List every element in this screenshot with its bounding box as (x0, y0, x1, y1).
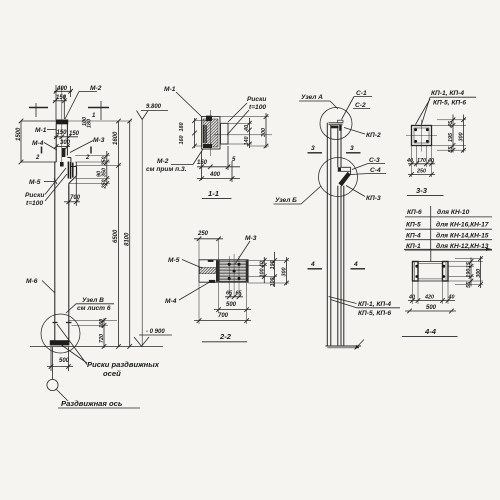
label M-5 detail 2-2 (168, 257, 202, 268)
SECTION-22 (165, 231, 289, 342)
svg-text:М-2: М-2 (90, 85, 102, 92)
labels KP-1 KP-4 KP-5 KP-6 top right (416, 90, 477, 125)
SECTION-44 (402, 248, 492, 337)
dimension 150 top (53, 95, 67, 119)
svg-text:3-3: 3-3 (416, 186, 428, 195)
column base plate (50, 340, 70, 345)
riska marks on shaft (53, 322, 72, 324)
svg-text:С-4: С-4 (370, 167, 381, 174)
svg-text:250: 250 (102, 180, 108, 190)
dim 700 bottom 2-2 (194, 283, 251, 324)
svg-text:КП-1, КП-4: КП-1, КП-4 (431, 90, 464, 97)
side view column walls (327, 123, 344, 346)
svg-text:С-2: С-2 (355, 102, 366, 109)
console bracket side view (338, 167, 351, 186)
svg-text:300: 300 (282, 268, 288, 277)
svg-text:6500: 6500 (113, 229, 119, 243)
svg-text:250: 250 (102, 157, 108, 167)
dimension 700 console (64, 162, 81, 206)
SECTION-SIDEVIEW (274, 90, 401, 350)
table of KP marks (405, 206, 492, 251)
dim 150 5 bottom (197, 146, 240, 180)
detail 4-4 bolts (415, 265, 445, 278)
section mark 2 right (85, 147, 91, 162)
svg-text:1-1: 1-1 (208, 189, 219, 198)
label riski t=100 (227, 96, 266, 135)
svg-text:100: 100 (270, 278, 276, 287)
label M-3 detail 2-2 (235, 235, 257, 264)
svg-text:осей: осей (103, 369, 121, 378)
svg-text:КП-2: КП-2 (366, 132, 381, 139)
svg-text:Узел Б: Узел Б (275, 197, 297, 204)
axis cross 1 (29, 103, 48, 117)
svg-text:2: 2 (85, 155, 90, 161)
label uzel A (299, 94, 338, 109)
svg-text:250: 250 (197, 231, 209, 237)
svg-text:300: 300 (459, 133, 465, 142)
svg-text:для КН-16,КН-17: для КН-16,КН-17 (436, 221, 489, 229)
weld mark left of console (60, 162, 64, 167)
svg-text:для КН-10: для КН-10 (437, 208, 470, 216)
SECTION-33 (405, 90, 492, 251)
svg-text:КП-1, КП-4: КП-1, КП-4 (358, 301, 391, 308)
dim 500 bottom 2-2 (214, 283, 251, 313)
svg-text:90: 90 (97, 171, 103, 177)
title 4-4 (402, 327, 458, 337)
svg-text:КП-5: КП-5 (406, 222, 421, 229)
svg-text:190: 190 (270, 261, 276, 270)
leader line to detail 4-4 (404, 248, 492, 262)
right dims 45 195 55 300 (432, 115, 467, 153)
bolts detail 2-2 (228, 263, 241, 280)
svg-text:8100: 8100 (125, 232, 131, 246)
svg-text:150: 150 (69, 131, 80, 137)
svg-text:700: 700 (70, 195, 81, 201)
detail 1-1 horizontal centerline (214, 134, 272, 136)
svg-text:Риски: Риски (25, 192, 44, 199)
dim 250 above 2-2 (194, 231, 223, 260)
label M-2 top (65, 85, 102, 119)
svg-text:С-3: С-3 (369, 157, 380, 164)
svg-text:180: 180 (179, 123, 185, 132)
svg-text:40: 40 (244, 125, 250, 132)
svg-text:М-4: М-4 (32, 140, 44, 147)
right dims 15 190 55 300 (448, 256, 483, 288)
svg-text:40: 40 (448, 295, 455, 301)
razbivochnaya axis circle (47, 379, 58, 390)
detail 3-3 bolts (414, 128, 428, 142)
svg-text:700: 700 (218, 313, 229, 319)
svg-text:40: 40 (260, 261, 266, 268)
detail 3-3 square (412, 126, 432, 146)
svg-text:170: 170 (417, 158, 426, 164)
label M-4 (32, 140, 65, 157)
dimension 150 150 on cap (54, 130, 80, 139)
column top cap plate (56, 120, 68, 125)
svg-text:100: 100 (260, 269, 266, 278)
dimension 1500 left (16, 119, 56, 165)
svg-text:140: 140 (244, 137, 250, 146)
dim line 1600-6500 (113, 119, 121, 349)
svg-text:190: 190 (466, 269, 472, 278)
label M-4 detail 2-2 (165, 282, 210, 305)
svg-text:для КН-12,КН-13: для КН-12,КН-13 (436, 242, 489, 250)
labels KP-1 KP-4 KP-5 KP-6 (329, 297, 401, 318)
svg-text:Узел В: Узел В (82, 297, 104, 304)
svg-text:300: 300 (261, 128, 267, 137)
svg-text:160: 160 (179, 136, 185, 145)
detail 1-1 body (202, 116, 220, 149)
dims 40 140 right (228, 118, 252, 148)
column lower shaft (55, 162, 69, 341)
svg-text:180: 180 (99, 319, 105, 328)
label razdvizhnaya os (57, 390, 141, 409)
svg-text:300: 300 (476, 269, 482, 278)
side view base (326, 340, 365, 350)
label uzel V (66, 297, 114, 313)
svg-text:9.800: 9.800 (146, 104, 162, 110)
svg-text:Риски раздвижных: Риски раздвижных (87, 360, 160, 369)
rotated dims 250 350 90 console (69, 151, 110, 190)
dim 400 bottom (197, 161, 240, 182)
svg-text:4: 4 (310, 261, 315, 268)
SECTION-11 (146, 86, 272, 198)
label M-1 detail 1-1 (164, 86, 202, 117)
dimension 300 (54, 140, 71, 149)
axis line to circle (52, 347, 54, 380)
svg-text:180: 180 (87, 119, 93, 128)
label KP-2 (344, 128, 381, 140)
label M-3 (70, 137, 105, 153)
section marks 3 (308, 145, 361, 153)
label KP-3 (346, 186, 381, 203)
svg-text:М-5: М-5 (29, 179, 41, 186)
svg-text:720: 720 (99, 334, 105, 343)
svg-text:400: 400 (209, 172, 221, 178)
svg-text:55: 55 (466, 281, 472, 288)
detail 2-2 body (199, 260, 248, 283)
svg-text:3: 3 (311, 145, 315, 152)
side view top cap (329, 120, 344, 131)
svg-text:2-2: 2-2 (219, 332, 232, 341)
ground base line (30, 346, 163, 348)
svg-text:40: 40 (406, 158, 413, 164)
svg-text:t=100: t=100 (249, 104, 266, 111)
column axis line (61, 87, 63, 163)
axis cross 2 (88, 101, 109, 120)
svg-text:Раздвижная ось: Раздвижная ось (61, 399, 123, 408)
svg-text:4: 4 (353, 261, 358, 268)
label M-6 (26, 278, 55, 293)
svg-text:250: 250 (416, 169, 426, 175)
svg-text:С-1: С-1 (356, 90, 367, 97)
svg-text:500: 500 (426, 305, 437, 311)
dim 65 65 (225, 291, 243, 300)
svg-text:195: 195 (448, 132, 454, 142)
column upper shaft (56, 124, 67, 162)
svg-text:55: 55 (448, 146, 454, 153)
svg-text:- 0 900: - 0 900 (146, 329, 165, 335)
extension line top (68, 120, 132, 122)
svg-text:КП-5, КП-6: КП-5, КП-6 (433, 100, 466, 107)
right dims 40 100 190 300 (248, 252, 289, 287)
detail 1-1 centerline (209, 110, 211, 156)
title 1-1 (202, 189, 232, 198)
svg-text:4-4: 4-4 (424, 327, 437, 336)
svg-text:Риски: Риски (247, 96, 266, 103)
svg-text:1: 1 (92, 113, 96, 119)
bolt centerlines (229, 254, 239, 297)
label M-2 see note (146, 149, 203, 173)
circle uzel A (320, 108, 352, 140)
svg-text:15: 15 (466, 261, 472, 268)
elevation mark -0.900 (134, 329, 172, 346)
svg-text:65: 65 (226, 291, 233, 297)
SECTION-ELEVATION (16, 85, 172, 408)
dim line 8100 (125, 119, 133, 349)
bottom dims 40 170 40 250 (406, 146, 435, 178)
title 2-2 (202, 332, 247, 342)
bottom dims 40 420 40 500 (405, 281, 456, 313)
svg-text:500: 500 (59, 358, 70, 364)
console with riska hatching (67, 158, 76, 184)
svg-text:t=100: t=100 (26, 200, 43, 207)
dimension 400 top (54, 85, 73, 120)
svg-text:40: 40 (408, 295, 415, 301)
detail 4-4 body (413, 262, 449, 282)
svg-text:65: 65 (236, 291, 243, 297)
svg-text:М-5: М-5 (168, 257, 180, 264)
elevation reference line (141, 120, 143, 347)
svg-text:М-3: М-3 (93, 137, 105, 144)
svg-text:420: 420 (424, 295, 434, 301)
dim 300 right (220, 113, 269, 148)
svg-text:150: 150 (197, 160, 208, 166)
svg-text:М-4: М-4 (165, 298, 177, 305)
dims 180 720 right of base (69, 318, 117, 349)
svg-text:для КН-14,КН-15: для КН-14,КН-15 (436, 232, 489, 240)
svg-text:3: 3 (350, 145, 354, 152)
svg-text:5: 5 (232, 157, 236, 163)
rotated dims 100 180 near top (82, 117, 93, 128)
svg-text:КП-4: КП-4 (406, 233, 421, 240)
svg-text:см лист 6: см лист 6 (77, 305, 111, 312)
console riska strokes (68, 162, 72, 179)
svg-text:М-2: М-2 (157, 158, 169, 165)
svg-text:Узел А: Узел А (301, 94, 323, 101)
svg-text:М-3: М-3 (245, 235, 257, 242)
svg-text:М-6: М-6 (26, 278, 38, 285)
svg-text:КП-3: КП-3 (366, 195, 381, 202)
label Riski l=100 (25, 168, 67, 207)
dims 180 160 left (179, 118, 206, 148)
dimension 500 base (47, 347, 73, 371)
svg-text:М-1: М-1 (35, 127, 47, 134)
label M-5 (29, 179, 57, 187)
label uzel B (274, 186, 322, 204)
svg-text:500: 500 (226, 302, 237, 308)
labels C-1 C-2 (342, 90, 373, 120)
section marks 4 (308, 261, 366, 269)
extension line console (75, 164, 121, 166)
circle uzel B (319, 158, 358, 197)
title 3-3 (407, 186, 444, 195)
svg-text:М-1: М-1 (164, 86, 176, 93)
labels C-3 C-4 (350, 157, 386, 175)
elevation mark 9.800 (137, 104, 169, 120)
svg-text:1600: 1600 (113, 131, 119, 145)
label M-1 (35, 127, 56, 134)
detail 3-3 centerlines (406, 120, 437, 152)
svg-text:см прим п.3.: см прим п.3. (146, 166, 187, 173)
detail 1-1 side plate (221, 123, 229, 144)
svg-text:2: 2 (35, 155, 40, 161)
svg-text:КП-5, КП-6: КП-5, КП-6 (358, 310, 391, 317)
svg-text:40: 40 (427, 158, 434, 164)
label riski razbivochnyh osey (57, 324, 160, 378)
section mark 2 left (35, 147, 42, 162)
circle uzel V (41, 314, 80, 353)
svg-text:1500: 1500 (16, 127, 22, 141)
svg-text:КП-6: КП-6 (407, 209, 422, 216)
svg-text:45: 45 (448, 120, 454, 128)
